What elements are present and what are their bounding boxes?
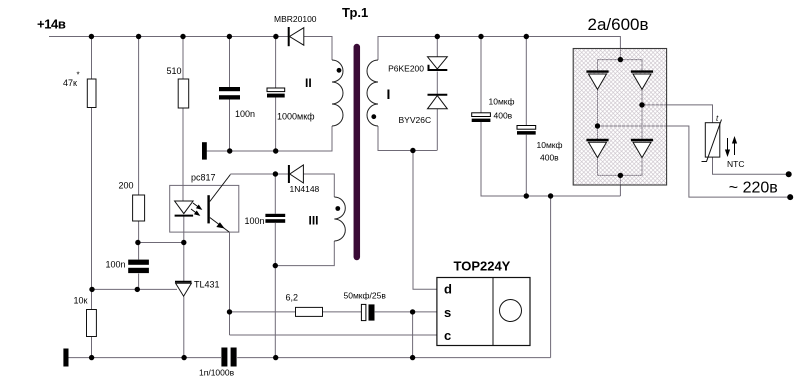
svg-text:I: I: [387, 86, 391, 102]
svg-text:2а/600в: 2а/600в: [588, 15, 649, 34]
svg-text:1N4148: 1N4148: [290, 184, 320, 194]
svg-text:III: III: [309, 214, 319, 228]
svg-text:200: 200: [119, 181, 134, 191]
svg-text:100n: 100n: [235, 109, 255, 119]
svg-text:6,2: 6,2: [286, 293, 299, 303]
svg-text:400в: 400в: [494, 111, 513, 121]
svg-text:47к: 47к: [63, 78, 77, 88]
svg-text:TL431: TL431: [194, 280, 220, 290]
svg-text:NTC: NTC: [727, 159, 744, 169]
svg-text:P6KE200: P6KE200: [388, 64, 424, 74]
svg-text:510: 510: [167, 66, 182, 76]
svg-text:BYV26C: BYV26C: [399, 115, 432, 125]
svg-text:400в: 400в: [540, 153, 559, 163]
svg-text:50мкф/25в: 50мкф/25в: [344, 291, 387, 301]
svg-text:c: c: [444, 328, 451, 343]
svg-text:10мкф: 10мкф: [537, 140, 563, 150]
svg-text:+14в: +14в: [37, 17, 66, 32]
svg-text:II: II: [305, 76, 312, 90]
svg-text:100n: 100n: [245, 216, 265, 226]
svg-text:s: s: [444, 305, 451, 320]
svg-text:d: d: [444, 281, 452, 296]
svg-text:*: *: [77, 71, 80, 80]
svg-text:10мкф: 10мкф: [489, 97, 515, 107]
svg-text:1п/1000в: 1п/1000в: [199, 368, 235, 378]
svg-text:pc817: pc817: [191, 173, 216, 183]
svg-text:10к: 10к: [74, 296, 88, 306]
svg-text:100n: 100n: [106, 260, 126, 270]
svg-text:1000мкф: 1000мкф: [277, 112, 315, 122]
svg-text:MBR20100: MBR20100: [274, 14, 317, 24]
svg-text:Тр.1: Тр.1: [342, 5, 368, 20]
svg-text:TOP224Y: TOP224Y: [454, 259, 511, 274]
svg-text:~ 220в: ~ 220в: [729, 180, 778, 197]
